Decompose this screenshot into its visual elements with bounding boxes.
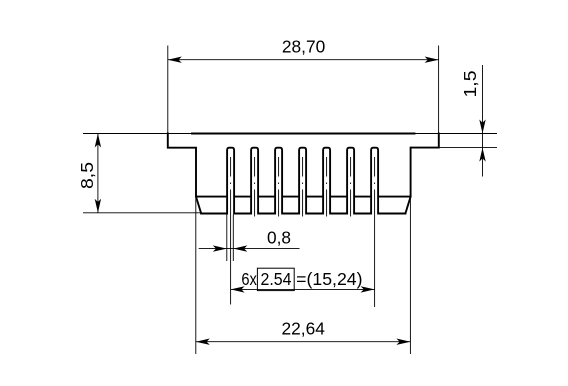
- centerline slot 1: [230, 157, 232, 305]
- svg-text:22,64: 22,64: [282, 318, 326, 338]
- centerline slot 5: [326, 157, 328, 217]
- extension line: left edge of flange going up (28,70 left): [167, 46, 169, 134]
- arrowhead 28,70 right: [425, 57, 439, 63]
- centerline slot 3: [278, 157, 280, 217]
- svg-text:=(15,24): =(15,24): [296, 269, 362, 289]
- arrowhead 1,5 bottom (pointing up): [479, 148, 485, 162]
- svg-text:1,5: 1,5: [460, 71, 480, 98]
- part: top edge of flange: [192, 133, 415, 135]
- arrowhead 8,5 top: [95, 134, 101, 148]
- extension line: slot 1 right wall down (0,8 right): [232, 215, 234, 262]
- part: slot 1 walls with rounded cap: [227, 148, 234, 214]
- extension line: flange bottom level, right (1,5 bottom ref): [439, 147, 497, 149]
- part: left outer tooth bottom edge: [201, 213, 226, 215]
- centerline slot 4: [302, 157, 304, 217]
- extension line: body right edge going down (22,64 right): [409, 197, 411, 355]
- svg-text:0,8: 0,8: [267, 227, 291, 247]
- part: left outer tooth top shoulder line: [196, 196, 226, 198]
- extension line: slot 1 left wall down (0,8 left): [226, 215, 228, 262]
- part: right outer tooth bottom edge: [379, 213, 406, 215]
- centerline slot 7: [374, 157, 376, 307]
- part: tooth 4 shoulder and bottom lines: [307, 196, 323, 198]
- arrowhead 28,70 left: [168, 57, 182, 63]
- dimension line 0,8: [199, 248, 300, 250]
- dimension line 22,64: [196, 341, 411, 343]
- part: slot 5 walls with rounded cap: [323, 148, 330, 214]
- arrowhead 6x2.54 left: [231, 286, 245, 292]
- frame box around 2.54: [257, 268, 294, 290]
- extension line: body left edge going down (22,64 left): [195, 197, 197, 355]
- part: right flange edge and right step and body right edge with chamfer: [405, 134, 438, 214]
- part: slot 6 walls with rounded cap: [347, 148, 354, 214]
- dimension line 8,5: [97, 134, 99, 213]
- part: slot 4 walls with rounded cap: [299, 148, 306, 214]
- part: slot 7 walls with rounded cap: [371, 148, 378, 214]
- svg-text:2.54: 2.54: [261, 269, 292, 289]
- part: tooth 5 shoulder and bottom lines: [331, 196, 347, 198]
- part: slot 3 walls with rounded cap: [275, 148, 282, 214]
- arrowhead 1,5 top (pointing down): [479, 120, 485, 134]
- part: left flange edge and left step and body left edge with chamfer: [168, 134, 201, 214]
- arrowhead 0,8 right (pointing left): [233, 245, 247, 251]
- dimension line 1,5: [482, 65, 484, 177]
- part: right outer tooth top shoulder line: [379, 196, 411, 198]
- arrowhead 0,8 left (pointing right): [213, 245, 227, 251]
- part: tooth 1 shoulder and bottom lines: [235, 196, 251, 198]
- centerline slot 2: [254, 157, 256, 217]
- arrowhead 22,64 right: [396, 339, 410, 345]
- dimension line 28,70: [168, 59, 439, 61]
- arrowhead 6x2.54 right: [361, 286, 375, 292]
- extension line: part bottom level, left (8,5 bottom ref): [83, 212, 201, 214]
- dimension line 6x2.54: [231, 288, 375, 290]
- svg-text:28,70: 28,70: [282, 36, 326, 56]
- extension line: top surface level (8,5 top ref / 1,5 top ref, spans full width): [83, 133, 497, 135]
- part: tooth 2 shoulder and bottom lines: [259, 196, 275, 198]
- arrowhead 8,5 bottom: [95, 199, 101, 213]
- arrowhead 22,64 left: [196, 339, 210, 345]
- extension line: right edge of flange going up (28,70 right): [438, 46, 440, 134]
- part: slot 2 walls with rounded cap: [251, 148, 258, 214]
- svg-text:6x: 6x: [241, 269, 257, 289]
- part: tooth 3 shoulder and bottom lines: [283, 196, 299, 198]
- part: tooth 6 shoulder and bottom lines: [355, 196, 371, 198]
- svg-text:8,5: 8,5: [77, 162, 97, 189]
- centerline slot 6: [350, 157, 352, 217]
